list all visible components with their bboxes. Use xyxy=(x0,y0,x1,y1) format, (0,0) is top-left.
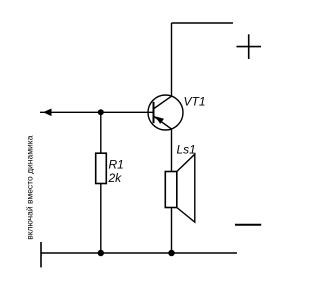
wire speaker bottom xyxy=(171,208,173,254)
plus terminal xyxy=(237,34,262,59)
speaker Ls1 xyxy=(165,154,195,222)
node junction speaker bottom xyxy=(168,250,174,256)
svg-text:R1: R1 xyxy=(109,157,124,171)
arrowhead output to speaker xyxy=(43,109,52,117)
wire base lead xyxy=(40,111,154,113)
resistor R1 xyxy=(96,153,107,183)
svg-text:2k: 2k xyxy=(108,171,123,185)
svg-text:включай вместо динамика: включай вместо динамика xyxy=(25,135,35,239)
svg-text:VT1: VT1 xyxy=(184,95,206,109)
wire collector vertical xyxy=(171,23,173,96)
minus terminal xyxy=(235,224,261,226)
terminal bar left xyxy=(40,242,42,267)
svg-text:Ls1: Ls1 xyxy=(177,142,196,156)
wire R1 top xyxy=(100,112,102,153)
label R1 2k xyxy=(108,157,124,185)
wire top rail from collector to plus terminal xyxy=(172,22,234,24)
node junction base/R1 xyxy=(98,109,104,115)
wire emitter to speaker xyxy=(171,129,173,172)
wire bottom rail xyxy=(41,252,237,254)
transistor VT1 xyxy=(148,95,183,130)
wire R1 bottom xyxy=(100,184,102,254)
node junction R1 bottom xyxy=(98,250,104,256)
